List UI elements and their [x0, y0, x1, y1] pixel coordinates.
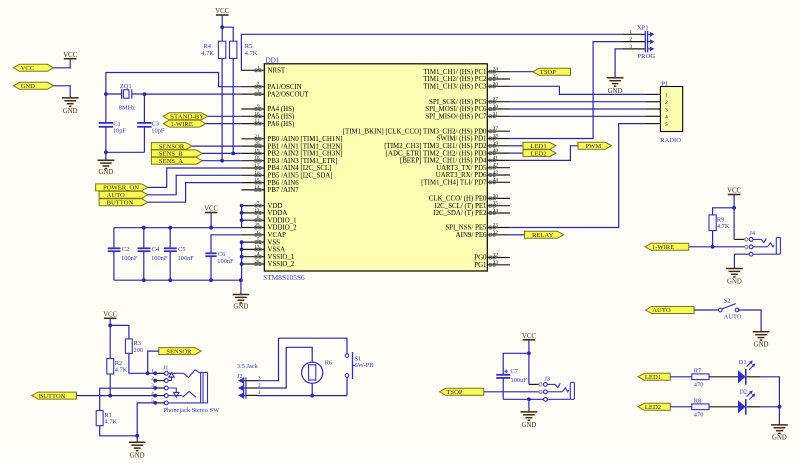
- junction R4/SENS_A: [220, 159, 224, 163]
- svg-text:R7: R7: [694, 367, 702, 374]
- svg-text:D2: D2: [739, 389, 747, 396]
- svg-text:BUTTON: BUTTON: [39, 393, 66, 400]
- wire C3 bottom to C1 bottom: [106, 151, 144, 153]
- power symbol VCC (C7): [522, 333, 536, 340]
- junction VSSIO_1: [240, 255, 244, 259]
- capacitor C7 100uF: [496, 368, 527, 399]
- svg-text:470: 470: [694, 381, 704, 388]
- svg-text:[TIM1_CH4] TLI/ PD7: [TIM1_CH4] TLI/ PD7: [421, 180, 487, 187]
- svg-text:PB2 /AIN2 [TIM1_CH3N]: PB2 /AIN2 [TIM1_CH3N]: [268, 151, 343, 158]
- ground (crystal): [98, 160, 115, 176]
- svg-text:[TIM2_CH3] TIM3_CH1/ (HS) PD2: [TIM2_CH3] TIM3_CH1/ (HS) PD2: [384, 143, 487, 150]
- net flag LED2 (bottom): [638, 403, 670, 411]
- svg-text:PB0 /AIN0 [TIM1_CH1N]: PB0 /AIN0 [TIM1_CH1N]: [268, 136, 343, 143]
- junction R5/SENS_B: [231, 152, 235, 156]
- junction VSSIO_2: [240, 262, 244, 266]
- svg-text:R5: R5: [245, 43, 252, 50]
- junction VSS: [240, 240, 244, 244]
- pin 32 PG0 (DD1 right): [474, 253, 510, 262]
- svg-text:GND: GND: [727, 279, 742, 286]
- svg-text:SPI_MOSI/ (HS) PC6: SPI_MOSI/ (HS) PC6: [425, 106, 487, 113]
- resistor R4 4.7K: [201, 41, 225, 58]
- svg-text:8MHz: 8MHz: [119, 105, 135, 112]
- wire R2 bottom to BUTTON net: [109, 374, 111, 396]
- svg-text:XP1: XP1: [637, 24, 649, 31]
- pin 40 [ADC_ETR] TIM2_CH2/ (HS) PD3 (DD1 right): [386, 148, 510, 157]
- connector XP1 PROG: [622, 24, 655, 60]
- wire BUTTON to PB6: [148, 183, 242, 203]
- svg-text:LED2: LED2: [645, 404, 661, 411]
- net flag BUTTON (left): [99, 199, 148, 207]
- pin 25 TIM1_CH2/ (HS) PC2 (DD1 right): [423, 74, 510, 83]
- svg-text:32: 32: [493, 253, 499, 259]
- svg-text:PB7 /AIN7: PB7 /AIN7: [268, 187, 300, 194]
- svg-text:42: 42: [493, 163, 499, 169]
- capacitor C4 100nF: [138, 228, 168, 281]
- net flag TSOP (bottom): [440, 388, 484, 396]
- svg-text:11: 11: [255, 119, 260, 125]
- svg-text:P1: P1: [661, 81, 668, 88]
- wire TSOP flag to J3 pin2: [484, 391, 539, 393]
- junction gnd bus / earth stem: [239, 278, 243, 282]
- svg-text:GND: GND: [608, 88, 623, 95]
- svg-text:I2C_SCL/ (T) PE1: I2C_SCL/ (T) PE1: [434, 203, 487, 210]
- svg-text:R4: R4: [204, 43, 212, 50]
- svg-text:38: 38: [493, 134, 499, 140]
- svg-text:17: 17: [254, 163, 260, 169]
- svg-text:24: 24: [493, 67, 499, 73]
- wire J2 pin1 bottom net: [258, 395, 348, 397]
- svg-text:UART3_TX/ PD5: UART3_TX/ PD5: [436, 165, 487, 172]
- wire SENSOR to PB1: [192, 145, 241, 147]
- connector J4 jack: [745, 230, 781, 256]
- svg-text:14: 14: [254, 185, 260, 191]
- svg-text:10pF: 10pF: [113, 127, 127, 134]
- power symbol VCC (at VDD pins): [204, 206, 218, 213]
- pin 31 SPI_MISO/ (HS) PC7 (DD1 right): [425, 111, 510, 120]
- svg-text:AUTO: AUTO: [652, 307, 670, 314]
- resistor R3 200: [125, 339, 143, 354]
- switch S1 SW-PB: [345, 352, 373, 379]
- resistor R5 4.7K: [230, 41, 258, 58]
- pin 36 CLK_CCO/ (H) PE0 (DD1 right): [429, 193, 510, 202]
- pin 30 SPI_MOSI/ (HS) PC6 (DD1 right): [425, 104, 510, 113]
- svg-text:RADIO: RADIO: [660, 137, 681, 144]
- svg-text:VCC: VCC: [21, 65, 35, 72]
- svg-text:GND: GND: [21, 83, 36, 90]
- svg-text:100nF: 100nF: [178, 255, 195, 262]
- wire GND flag to ground: [54, 86, 71, 98]
- svg-text:34: 34: [493, 208, 499, 214]
- junction VCC/R4/R5: [220, 25, 224, 29]
- pin 35 I2C_SCL/ (T) PE1 (DD1 right): [434, 201, 509, 210]
- svg-text:S2: S2: [724, 298, 731, 305]
- pin 34 I2C_SDA/ (T) PE2 (DD1 right): [433, 208, 510, 217]
- junction VCC/R9: [732, 206, 736, 210]
- svg-text:10pF: 10pF: [151, 127, 165, 134]
- net flag LED1 (bottom): [638, 373, 670, 381]
- wire XP1 pin2 to PD1 SWIM: [510, 42, 622, 139]
- svg-text:27: 27: [493, 97, 499, 103]
- svg-text:PB6 /AIN6: PB6 /AIN6: [268, 180, 300, 187]
- wire S1 bottom to bottom net: [346, 377, 348, 395]
- resistor R8 470: [692, 397, 709, 418]
- svg-text:VSSIO_1: VSSIO_1: [268, 254, 295, 261]
- wire J2 pin3 to S1 top: [258, 338, 348, 381]
- svg-text:PA2/OSCOUT: PA2/OSCOUT: [268, 91, 310, 98]
- svg-text:3.5 Jack: 3.5 Jack: [237, 363, 259, 370]
- capacitor C5 100nF: [164, 228, 194, 281]
- wire node B to PA2: [144, 93, 241, 95]
- power flag GND (top left): [14, 82, 54, 90]
- svg-text:LED1: LED1: [645, 374, 661, 381]
- net flag AUTO (left): [99, 191, 148, 199]
- svg-text:33: 33: [493, 260, 499, 266]
- svg-text:RELAY: RELAY: [532, 232, 554, 239]
- svg-text:D1: D1: [739, 359, 747, 366]
- svg-text:STAND-BY: STAND-BY: [170, 114, 204, 121]
- svg-text:VDDIO_2: VDDIO_2: [268, 225, 298, 232]
- svg-text:1: 1: [665, 93, 668, 99]
- crystal ZQ1: [106, 83, 144, 112]
- svg-text:37: 37: [493, 126, 499, 132]
- svg-text:[ADC_ETR] TIM2_CH2/ (HS) PD3: [ADC_ETR] TIM2_CH2/ (HS) PD3: [386, 150, 487, 157]
- junction R1/gnd/J1 pin5: [135, 434, 139, 438]
- wire STAND-BY to PA5: [208, 115, 242, 117]
- wire bus to ground: [240, 280, 242, 294]
- ground (J4): [726, 269, 743, 286]
- svg-text:4.7K: 4.7K: [105, 419, 118, 426]
- capacitor C3: [137, 94, 165, 152]
- svg-text:GND: GND: [754, 342, 769, 349]
- svg-text:ZQ1: ZQ1: [120, 83, 132, 90]
- svg-text:UART3_RX/ PD6: UART3_RX/ PD6: [436, 172, 487, 179]
- svg-text:VSSIO_2: VSSIO_2: [268, 261, 295, 268]
- svg-text:SENS_A: SENS_A: [159, 158, 183, 165]
- wire R7 to D1: [709, 376, 738, 378]
- capacitor C2 100nF: [108, 228, 138, 281]
- svg-text:PB1 /AIN1 [TIM1_CH2N]: PB1 /AIN1 [TIM1_CH2N]: [268, 143, 343, 150]
- wire AUTO to PB5: [148, 175, 242, 195]
- resistor R7 470: [692, 367, 709, 388]
- svg-text:VDDA: VDDA: [268, 210, 288, 217]
- svg-text:AIN9/ PE6: AIN9/ PE6: [456, 232, 487, 239]
- pin 27 SPI_SCK/ (HS) PC5 (DD1 right): [429, 97, 510, 106]
- pin 20 PB1 /AIN1 [TIM1_CH2N] (DD1 left): [241, 141, 342, 150]
- svg-text:C5: C5: [178, 246, 185, 253]
- pin 18 PB3 /AIN3 [TIM1_ETR] (DD1 left): [241, 156, 337, 165]
- svg-text:22: 22: [493, 230, 499, 236]
- net flag RELAY (at PE6): [510, 231, 564, 239]
- junction C6 bottom: [209, 278, 213, 282]
- svg-text:PG1: PG1: [474, 262, 487, 269]
- svg-text:1-WIRE: 1-WIRE: [652, 244, 674, 251]
- svg-text:4: 4: [257, 252, 260, 258]
- vss bus to pins VSS VSSA VSSIO_1 VSSIO_2: [241, 242, 243, 280]
- pin 9 PA4 (HS) (DD1 left): [241, 104, 294, 113]
- junction C4 bottom: [142, 278, 146, 282]
- svg-text:SW-PB: SW-PB: [354, 362, 373, 369]
- svg-text:40: 40: [493, 148, 499, 154]
- svg-text:4: 4: [665, 115, 668, 121]
- svg-text:4.7K: 4.7K: [201, 50, 214, 57]
- switch S2 AUTO: [719, 298, 742, 321]
- svg-text:20: 20: [254, 141, 260, 147]
- pin 3 PA2/OSCOUT (DD1 left): [241, 89, 309, 98]
- junction C1 bottom: [104, 150, 108, 154]
- LED D2: [738, 389, 755, 415]
- svg-text:3: 3: [257, 89, 260, 95]
- svg-text:GND: GND: [234, 304, 249, 311]
- capacitor C1: [99, 94, 127, 152]
- wire R5 bottom to SENS_B net: [232, 58, 234, 153]
- svg-text:44: 44: [493, 177, 499, 183]
- wire VCC to R9 and J4 pin1: [713, 195, 745, 240]
- svg-text:SPI_MISO/ (HS) PC7: SPI_MISO/ (HS) PC7: [425, 114, 487, 121]
- svg-text:SWIM/ (HS) PD1: SWIM/ (HS) PD1: [437, 136, 487, 143]
- svg-text:30: 30: [493, 104, 499, 110]
- net flag PWM: [578, 142, 612, 150]
- pin 43 UART3_RX/ PD6 (DD1 right): [436, 170, 510, 179]
- junction VSSA: [240, 248, 244, 252]
- svg-text:9: 9: [257, 104, 260, 110]
- wire VCC flag to VCC symbol: [54, 59, 71, 68]
- pin 21 PB0 /AIN0 [TIM1_CH1N] (DD1 left): [241, 134, 342, 143]
- net flag POWER_ON: [96, 184, 148, 192]
- svg-text:VCC: VCC: [63, 52, 77, 59]
- svg-text:SENSOR: SENSOR: [159, 143, 185, 150]
- svg-text:3: 3: [665, 107, 668, 113]
- svg-text:16: 16: [254, 170, 260, 176]
- ground (LEDs): [771, 425, 788, 441]
- svg-text:VCC: VCC: [215, 8, 229, 15]
- svg-text:100nF: 100nF: [217, 258, 234, 265]
- net flag AUTO (right): [645, 307, 694, 315]
- svg-text:21: 21: [254, 134, 260, 140]
- gnd bus under IC: [114, 279, 242, 281]
- svg-text:36: 36: [493, 193, 499, 199]
- svg-text:4.7K: 4.7K: [245, 50, 258, 57]
- svg-text:100uF: 100uF: [511, 377, 528, 384]
- ground (S2): [753, 332, 770, 349]
- pin 14 PB7 /AIN7 (DD1 left): [241, 185, 299, 194]
- resistor R1 4.7K: [96, 411, 117, 426]
- svg-text:GND: GND: [772, 434, 787, 441]
- svg-text:TSOP: TSOP: [540, 69, 556, 76]
- power flag VCC (top left): [14, 64, 54, 72]
- wire D1 to corner: [747, 377, 780, 407]
- wire C7 bottom to J3 pin3 and ground: [503, 399, 543, 412]
- resistor R2 4.7K: [107, 359, 128, 374]
- svg-text:1-WIRE: 1-WIRE: [171, 121, 193, 128]
- svg-text:SENSOR: SENSOR: [166, 348, 192, 355]
- pin 16 PB5 /AIN5 [I2C_SDA] (DD1 left): [241, 170, 332, 179]
- pin 39 [TIM2_CH3] TIM3_CH1/ (HS) PD2 (DD1 right): [384, 141, 510, 150]
- svg-text:PROG: PROG: [638, 53, 656, 60]
- svg-text:GND: GND: [63, 108, 78, 115]
- svg-text:STM8S105S6: STM8S105S6: [263, 273, 305, 282]
- svg-text:SPI_SCK/ (HS) PC5: SPI_SCK/ (HS) PC5: [429, 99, 487, 106]
- wire PD4 to PWM flag: [510, 146, 578, 161]
- svg-text:GND: GND: [130, 453, 145, 460]
- power symbol VCC (R2/R3): [103, 311, 117, 318]
- vcc rail to pins VDD VDDA VDDIO_1 VDDIO_2: [114, 206, 242, 228]
- power symbol VCC (R9): [727, 188, 741, 195]
- wire VCC to R4/R5 tops: [222, 15, 233, 41]
- junction D1/D2 cathodes: [778, 405, 782, 409]
- resistor R9 4.7K: [709, 215, 730, 231]
- IC DD1 STM8S105S6 microcontroller: [263, 56, 487, 283]
- wire R3 bottom to J1 pin1 and SENSOR: [129, 351, 159, 373]
- svg-text:5: 5: [257, 237, 260, 243]
- pin 42 UART3_TX/ PD5 (DD1 right): [436, 163, 510, 172]
- wire D2 to gnd corner: [747, 407, 780, 425]
- svg-text:35: 35: [493, 201, 499, 207]
- svg-text:DD1: DD1: [265, 56, 280, 65]
- svg-text:SPI_NSS/ PE5: SPI_NSS/ PE5: [445, 225, 487, 232]
- net flag 1-WIRE (left): [163, 120, 205, 128]
- net flag SENS_B: [151, 150, 202, 158]
- svg-text:VCC: VCC: [727, 188, 741, 195]
- svg-text:POWER_ON: POWER_ON: [103, 185, 139, 192]
- node B junction: [143, 92, 147, 96]
- svg-text:J4: J4: [749, 230, 755, 237]
- wire R1 bottom to ground and J1 pin5: [100, 403, 156, 442]
- svg-text:100nF: 100nF: [121, 255, 138, 262]
- junction R2/BUTTON: [108, 394, 112, 398]
- junction VCC/C7: [527, 351, 531, 355]
- svg-text:7: 7: [257, 201, 260, 207]
- svg-text:200: 200: [134, 347, 144, 354]
- svg-text:J1: J1: [163, 364, 169, 371]
- net flag LED2 (at PD3): [510, 150, 556, 158]
- svg-text:4.7K: 4.7K: [115, 367, 128, 374]
- svg-text:NRST: NRST: [268, 68, 286, 75]
- svg-text:AUTO: AUTO: [724, 314, 742, 321]
- pin 11 PA6 (HS) (DD1 left): [241, 119, 294, 128]
- wire BUTTON to J1 pin4: [77, 395, 156, 397]
- svg-text:[TIM1_BKIN] [CLK_CCO] TIM3_CH2: [TIM1_BKIN] [CLK_CCO] TIM3_CH2/ (HS) PD0: [343, 128, 487, 135]
- wire SENS_B to PB2: [202, 152, 241, 154]
- wire R1 top to J1 pin3: [100, 388, 156, 410]
- resistor R6 (lamp symbol): [302, 360, 333, 396]
- svg-text:BUTTON: BUTTON: [107, 199, 134, 206]
- LED D1: [738, 359, 755, 384]
- wire PC6 to P1 pin3: [510, 108, 646, 110]
- svg-text:VDD: VDD: [268, 203, 283, 210]
- svg-text:100nF: 100nF: [151, 255, 168, 262]
- pin 29 VDDIO_2 (DD1 left): [241, 223, 297, 232]
- junction C5 top: [168, 226, 172, 230]
- svg-text:R8: R8: [694, 397, 701, 404]
- svg-text:R6: R6: [325, 360, 332, 367]
- svg-text:PB5 /AIN5 [I2C_SDA]: PB5 /AIN5 [I2C_SDA]: [268, 173, 333, 180]
- net flag STAND-BY: [163, 113, 208, 121]
- svg-text:1: 1: [257, 65, 260, 71]
- svg-text:PB4 /AIN4 [I2C_SCL]: PB4 /AIN4 [I2C_SCL]: [268, 165, 332, 172]
- junction R6 bottom: [310, 394, 314, 398]
- svg-text:18: 18: [254, 156, 260, 162]
- svg-text:29: 29: [254, 223, 260, 229]
- ground (top left): [62, 98, 79, 115]
- pin 41 [BEEP] TIM2_CH1/ (HS) PD4 (DD1 right): [400, 155, 510, 164]
- svg-text:SENS_B: SENS_B: [159, 151, 183, 158]
- pin 4 VSSIO_1 (DD1 left): [241, 252, 294, 261]
- net flag SENS_A: [151, 157, 202, 165]
- wire to ground (crystal): [105, 152, 107, 160]
- pin 17 PB4 /AIN4 [I2C_SCL] (DD1 left): [241, 163, 331, 172]
- junction SENSOR/J1 pin1: [146, 371, 150, 375]
- pin 6 VCAP (DD1 left): [241, 230, 286, 239]
- wire PC3 to P1 pin1: [510, 86, 646, 94]
- svg-text:AUTO: AUTO: [107, 192, 125, 199]
- pin 24 TIM1_CH1/ (HS) PC1 (DD1 right): [423, 67, 510, 76]
- svg-text:43: 43: [493, 170, 499, 176]
- pin 12 VDDA (DD1 left): [241, 208, 287, 217]
- wire XP1 pin3 to ground: [615, 49, 622, 78]
- junction C5 bottom: [168, 278, 172, 282]
- svg-text:3: 3: [629, 44, 632, 50]
- svg-text:GND: GND: [99, 169, 114, 176]
- svg-text:VCAP: VCAP: [268, 232, 287, 239]
- wire 1-WIRE to PA6: [206, 123, 242, 125]
- pin 26 TIM1_CH3/ (HS) PC3 (DD1 right): [423, 81, 510, 90]
- svg-text:LED1: LED1: [531, 143, 547, 150]
- connector J2 3.5 Jack: [237, 363, 261, 398]
- svg-text:VCC: VCC: [522, 333, 536, 340]
- pin 38 SWIM/ (HS) PD1 (DD1 right): [437, 134, 510, 143]
- wire PE5 to P1 pin5: [510, 124, 646, 228]
- svg-text:25: 25: [493, 74, 499, 80]
- net flag 1-WIRE (right): [645, 243, 689, 251]
- junction VDDIO_1: [240, 218, 244, 222]
- pin 5 VSS (DD1 left): [241, 237, 280, 246]
- wire LED1 to R7: [670, 376, 692, 378]
- net flag TSOP (at PC1): [510, 68, 571, 76]
- svg-text:Phonejack Stereo SW: Phonejack Stereo SW: [163, 407, 220, 414]
- svg-text:J3: J3: [544, 375, 550, 382]
- svg-text:2: 2: [665, 100, 668, 106]
- pin 2 PA1/OSCIN (DD1 left): [241, 82, 301, 91]
- node A junction: [104, 92, 108, 96]
- wire 1-WIRE flag to J4 pin2: [689, 246, 745, 248]
- wire PC7 to P1 pin4: [510, 115, 646, 117]
- junction VCC/R3: [108, 324, 112, 328]
- svg-text:12: 12: [254, 208, 260, 214]
- junction VDD: [240, 204, 244, 208]
- wire VCC down to J3 pin1: [529, 340, 539, 385]
- wire R8 to D2: [709, 406, 738, 408]
- svg-text:GND: GND: [522, 422, 537, 429]
- wire LED2 to R8: [670, 406, 692, 408]
- svg-text:4.7K: 4.7K: [717, 223, 730, 230]
- svg-text:28: 28: [254, 259, 260, 265]
- svg-text:C6: C6: [218, 251, 225, 258]
- svg-text:23: 23: [493, 223, 499, 229]
- svg-text:TIM1_CH1/ (HS) PC1: TIM1_CH1/ (HS) PC1: [423, 69, 487, 76]
- ground (under IC): [233, 295, 250, 311]
- svg-text:TIM1_CH2/ (HS) PC2: TIM1_CH2/ (HS) PC2: [423, 76, 487, 83]
- wire PC5 to P1 pin2: [510, 101, 646, 103]
- power symbol VCC (R4/R5): [215, 8, 229, 15]
- pin 8 VDDIO_1 (DD1 left): [241, 215, 297, 224]
- svg-text:PA4 (HS): PA4 (HS): [268, 106, 295, 113]
- svg-text:VCC: VCC: [103, 311, 117, 318]
- svg-text:C2: C2: [122, 246, 129, 253]
- junction C4 top: [142, 226, 146, 230]
- net flag SENSOR (left): [151, 143, 192, 151]
- svg-text:VDDIO_1: VDDIO_1: [268, 217, 298, 224]
